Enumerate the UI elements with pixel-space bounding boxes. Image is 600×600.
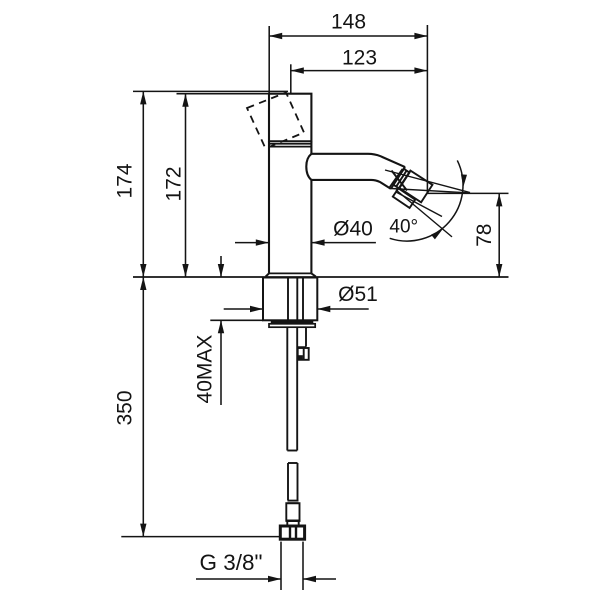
flexible hose lower segment: [286, 463, 301, 526]
angular dimension 40 deg arc: [389, 160, 467, 241]
dimension 148: [269, 11, 427, 194]
svg-text:123: 123: [342, 46, 377, 69]
dimension 123: [291, 46, 428, 93]
base plate: [269, 324, 315, 327]
faucet body cylinder: [269, 141, 311, 273]
spout tube: [306, 154, 405, 189]
dimension G 3/8": [196, 542, 336, 590]
aerator / nozzle assembly: [390, 167, 433, 208]
svg-text:172: 172: [163, 166, 186, 201]
handle collar: [269, 144, 311, 147]
svg-text:174: 174: [114, 163, 137, 198]
counter / deck line: [133, 276, 509, 278]
handle tilted position (dashed): [247, 93, 304, 149]
svg-text:G 3/8": G 3/8": [199, 550, 262, 575]
dimension 174: [114, 91, 147, 277]
handle (lever, upright position): [269, 94, 311, 142]
dimension 172: [163, 94, 189, 277]
svg-text:350: 350: [114, 390, 137, 425]
svg-text:Ø40: Ø40: [333, 217, 373, 240]
svg-text:Ø51: Ø51: [338, 283, 378, 306]
dimension 78: [427, 193, 508, 277]
bottom reference line (hose end): [121, 536, 280, 538]
extension line (handle top, for 172): [177, 93, 270, 95]
top extension line (tilted handle top, for 174): [133, 90, 288, 92]
dimension 40MAX: [194, 256, 264, 405]
svg-text:40°: 40°: [389, 216, 418, 237]
svg-text:78: 78: [473, 224, 496, 247]
mounting nut below counter: [263, 278, 317, 321]
G3/8 hose end nut (bold): [280, 526, 304, 539]
threaded stud / supply pipe: [287, 327, 297, 450]
spray indication lines: [385, 170, 470, 237]
dimension D40: [235, 217, 376, 246]
side hose stub: [297, 327, 309, 360]
svg-text:40MAX: 40MAX: [194, 335, 217, 404]
rubber washer (filled): [271, 320, 314, 324]
dimension D51: [224, 283, 378, 312]
body base flare: [266, 273, 316, 276]
svg-text:148: 148: [331, 11, 366, 34]
dimension 350: [114, 277, 147, 537]
